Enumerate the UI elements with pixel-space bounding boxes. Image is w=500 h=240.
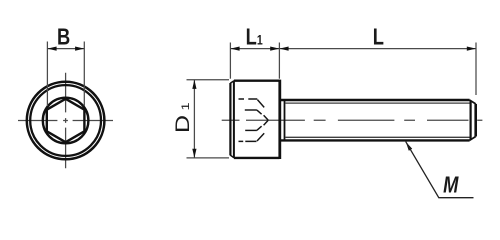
screw axis centerline (222, 119, 483, 121)
thread root line bottom (286, 136, 471, 138)
dim L extension line right (475, 43, 477, 96)
dim L1 dimension line (230, 48, 279, 50)
thread runout line (284, 100, 286, 140)
head top edge (234, 79, 280, 81)
head chamfer circle (30, 85, 101, 156)
svg-text:L: L (373, 25, 384, 51)
svg-text:M: M (443, 172, 459, 198)
tip chamfer base line (470, 101, 472, 140)
tip chamfer diagonal top (470, 100, 476, 104)
dim D1 extension line top (187, 79, 230, 81)
thread root line top (286, 102, 471, 104)
head top-left chamfer (230, 81, 234, 84)
head outer circle (27, 82, 105, 160)
vertical centerline (65, 73, 67, 169)
socket hidden line lower inner (245, 129, 257, 131)
head right face / bearing face (278, 80, 281, 159)
shank top (thread crest) (280, 99, 469, 101)
dim D1 arrowheads (192, 80, 196, 89)
leader line (406, 142, 474, 198)
tip chamfer diagonal bottom (470, 137, 476, 141)
head chamfer line (233, 81, 235, 158)
tip end face (474, 104, 477, 137)
dim B arrowheads (47, 47, 56, 51)
dim D1 extension line bottom (187, 157, 230, 159)
shared extension line at head right (278, 43, 280, 79)
dim D1 dimension line (193, 80, 195, 158)
socket chamfer circle (43, 98, 89, 144)
dim L1 extension line left (229, 43, 231, 79)
socket cone hidden diagonals (257, 100, 268, 141)
svg-text:B: B (57, 25, 70, 51)
socket hidden line upper inner (245, 109, 257, 111)
dim L arrowheads (279, 47, 288, 51)
dim B extension lines (47, 42, 84, 107)
dim B dimension line (47, 48, 84, 50)
socket hidden line upper outer (239, 98, 258, 100)
head bottom edge (234, 157, 280, 159)
hex socket (47, 99, 85, 142)
socket hidden line lower outer (239, 140, 257, 142)
head bottom-left chamfer (230, 155, 234, 158)
horizontal centerline (18, 120, 113, 122)
leader arrowhead on thread (406, 142, 413, 151)
head left face (229, 83, 231, 155)
dim L1 arrowheads (230, 47, 239, 51)
shank bottom (thread crest) (280, 139, 469, 141)
dim L dimension line (279, 48, 476, 50)
